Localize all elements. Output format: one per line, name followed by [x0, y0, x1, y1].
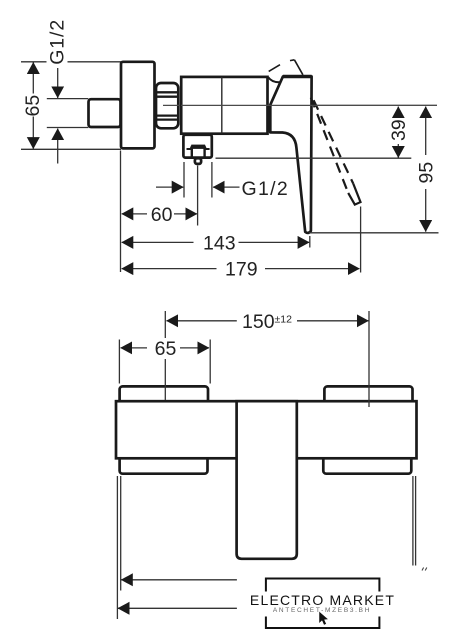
dashed lever open position right line: [314, 100, 354, 183]
svg-text:143: 143: [203, 232, 236, 254]
wire: right escutcheon centerline ext lower: [368, 385, 370, 407]
pipe thread square fitting: [89, 99, 121, 127]
outlet hex nut right facet line: [203, 147, 205, 157]
stray mark top-right of logo area: [422, 568, 427, 571]
dimension 39 lower arrow: [397, 144, 399, 158]
wire: extension line y=158.2 right of outlet crossing lever: [216, 157, 412, 159]
mixer body internal vertical line: [221, 77, 223, 134]
mixer body centerline extended right: [163, 104, 437, 106]
dimension 65 vertical line upper segment with arrow up: [32, 62, 34, 93]
union nut: [156, 83, 178, 128]
wire: centerline crossing lever: [268, 104, 438, 106]
cursor pointer: [319, 611, 328, 625]
union nut stripe 4: [157, 118, 179, 120]
right escutcheon top cap: [324, 386, 412, 403]
svg-text:39: 39: [388, 119, 410, 141]
wall plate: [121, 62, 155, 149]
dimension 179 left arrow: [122, 268, 217, 270]
mixer body: [181, 77, 267, 134]
dimension G1/2 outlet right arrow: [213, 186, 239, 188]
wire: right escutcheon centerline ext upper: [368, 311, 370, 385]
lever pivot arc: [268, 77, 280, 82]
dimension 143 right arrow: [239, 241, 310, 243]
dimension 179 right arrow: [265, 268, 359, 270]
svg-text:65: 65: [155, 338, 177, 360]
wire: outlet centerline extension: [197, 166, 199, 226]
dimension 65 vertical line lower segment with arrow down: [32, 117, 34, 149]
wire: top extension line y=61.8 left of G1/2 label: [21, 61, 47, 63]
dimension 95 upper arrow: [425, 107, 427, 155]
outlet hex nut top bar: [187, 146, 210, 149]
dimension 65 bottom view left arrow: [121, 347, 147, 349]
wire: extension line from dashed lever tip down: [360, 207, 362, 273]
dimension 150 right arrow: [297, 320, 368, 322]
raised handle thin line C: [294, 60, 303, 75]
dimension bottom first arrow: [121, 579, 237, 581]
dimension 60 right arrow: [174, 213, 197, 215]
dimension 60 left arrow: [122, 213, 147, 215]
right escutcheon bottom cap: [323, 457, 411, 474]
left escutcheon bottom cap: [120, 457, 208, 474]
wire: bottom extension line y=149.3: [21, 148, 121, 150]
wire: 65 right extension line: [209, 340, 211, 384]
union nut stripe 2: [157, 96, 179, 98]
mixer body centerline inside body: [181, 104, 267, 106]
svg-text:179: 179: [225, 259, 258, 281]
dimension 39 upper arrow: [397, 107, 399, 117]
shower outlet housing: [183, 135, 211, 158]
lever left vertical thick segment: [267, 105, 271, 133]
dimension 65 bottom view right arrow: [180, 347, 209, 349]
dimension 95 lower arrow: [425, 189, 427, 232]
logo frame: [266, 579, 380, 629]
svg-text:ANTECHET-MZEB3.BH: ANTECHET-MZEB3.BH: [273, 607, 371, 614]
wire: extension line y=232.8 from lever tip: [309, 232, 439, 234]
wire: bottom-left inner extension line: [120, 476, 122, 591]
svg-text:G1/2: G1/2: [242, 178, 289, 200]
svg-text:65: 65: [22, 95, 44, 117]
raised handle thin line A: [269, 65, 280, 72]
wire: left escutcheon centerline ext upper: [164, 311, 166, 338]
lever handle solid: [270, 77, 311, 233]
union nut stripe 1: [157, 91, 179, 93]
dimension 143 left arrow: [122, 241, 194, 243]
svg-text:60: 60: [151, 204, 173, 226]
wire: bottom-left outer extension line: [116, 476, 118, 619]
outlet hex nut left facet line: [191, 147, 193, 157]
dimension G1/2 outlet left arrow: [156, 186, 183, 188]
dashed lever open position left line: [311, 98, 348, 193]
lever top edge thick: [283, 75, 312, 78]
wire: thread bottom extension line: [47, 127, 89, 129]
wire: G1/2 leader arrow pointing down to thread top: [57, 68, 59, 98]
wire: thread top extension line: [47, 98, 89, 100]
svg-text:150±12: 150±12: [242, 311, 292, 333]
wire: top extension line y=61.8 right of G1/2 label to wall plate: [68, 61, 122, 63]
dimension bottom second arrow: [118, 607, 237, 609]
union nut stripe 3: [157, 114, 179, 116]
svg-text:G1/2: G1/2: [47, 19, 69, 65]
bottom view body bar: [116, 401, 417, 458]
wire: G1/2 lower arrow pointing up to thread bottom: [57, 129, 59, 164]
svg-text:95: 95: [415, 162, 437, 184]
raised handle thin line B: [290, 59, 294, 62]
wire: 65 left extension line: [118, 340, 120, 384]
wire: outlet right extension line: [211, 162, 213, 198]
bottom view handle bar: [237, 401, 297, 559]
outlet tip nub: [195, 158, 201, 164]
wire: bottom-right extension line b: [415, 476, 417, 566]
wire: outlet left extension line: [183, 162, 185, 198]
dimension 150 left arrow: [167, 320, 237, 322]
left escutcheon top cap: [120, 386, 208, 403]
wire: bottom-right extension line a: [412, 476, 414, 566]
dashed lever tip solid outline: [348, 184, 360, 205]
wire: left escutcheon centerline ext lower: [164, 359, 166, 400]
svg-text:ELECTRO MARKET: ELECTRO MARKET: [250, 592, 395, 608]
wire: short extension below lever tip: [309, 236, 311, 248]
wire: extension line from wall plate left down: [120, 151, 122, 273]
